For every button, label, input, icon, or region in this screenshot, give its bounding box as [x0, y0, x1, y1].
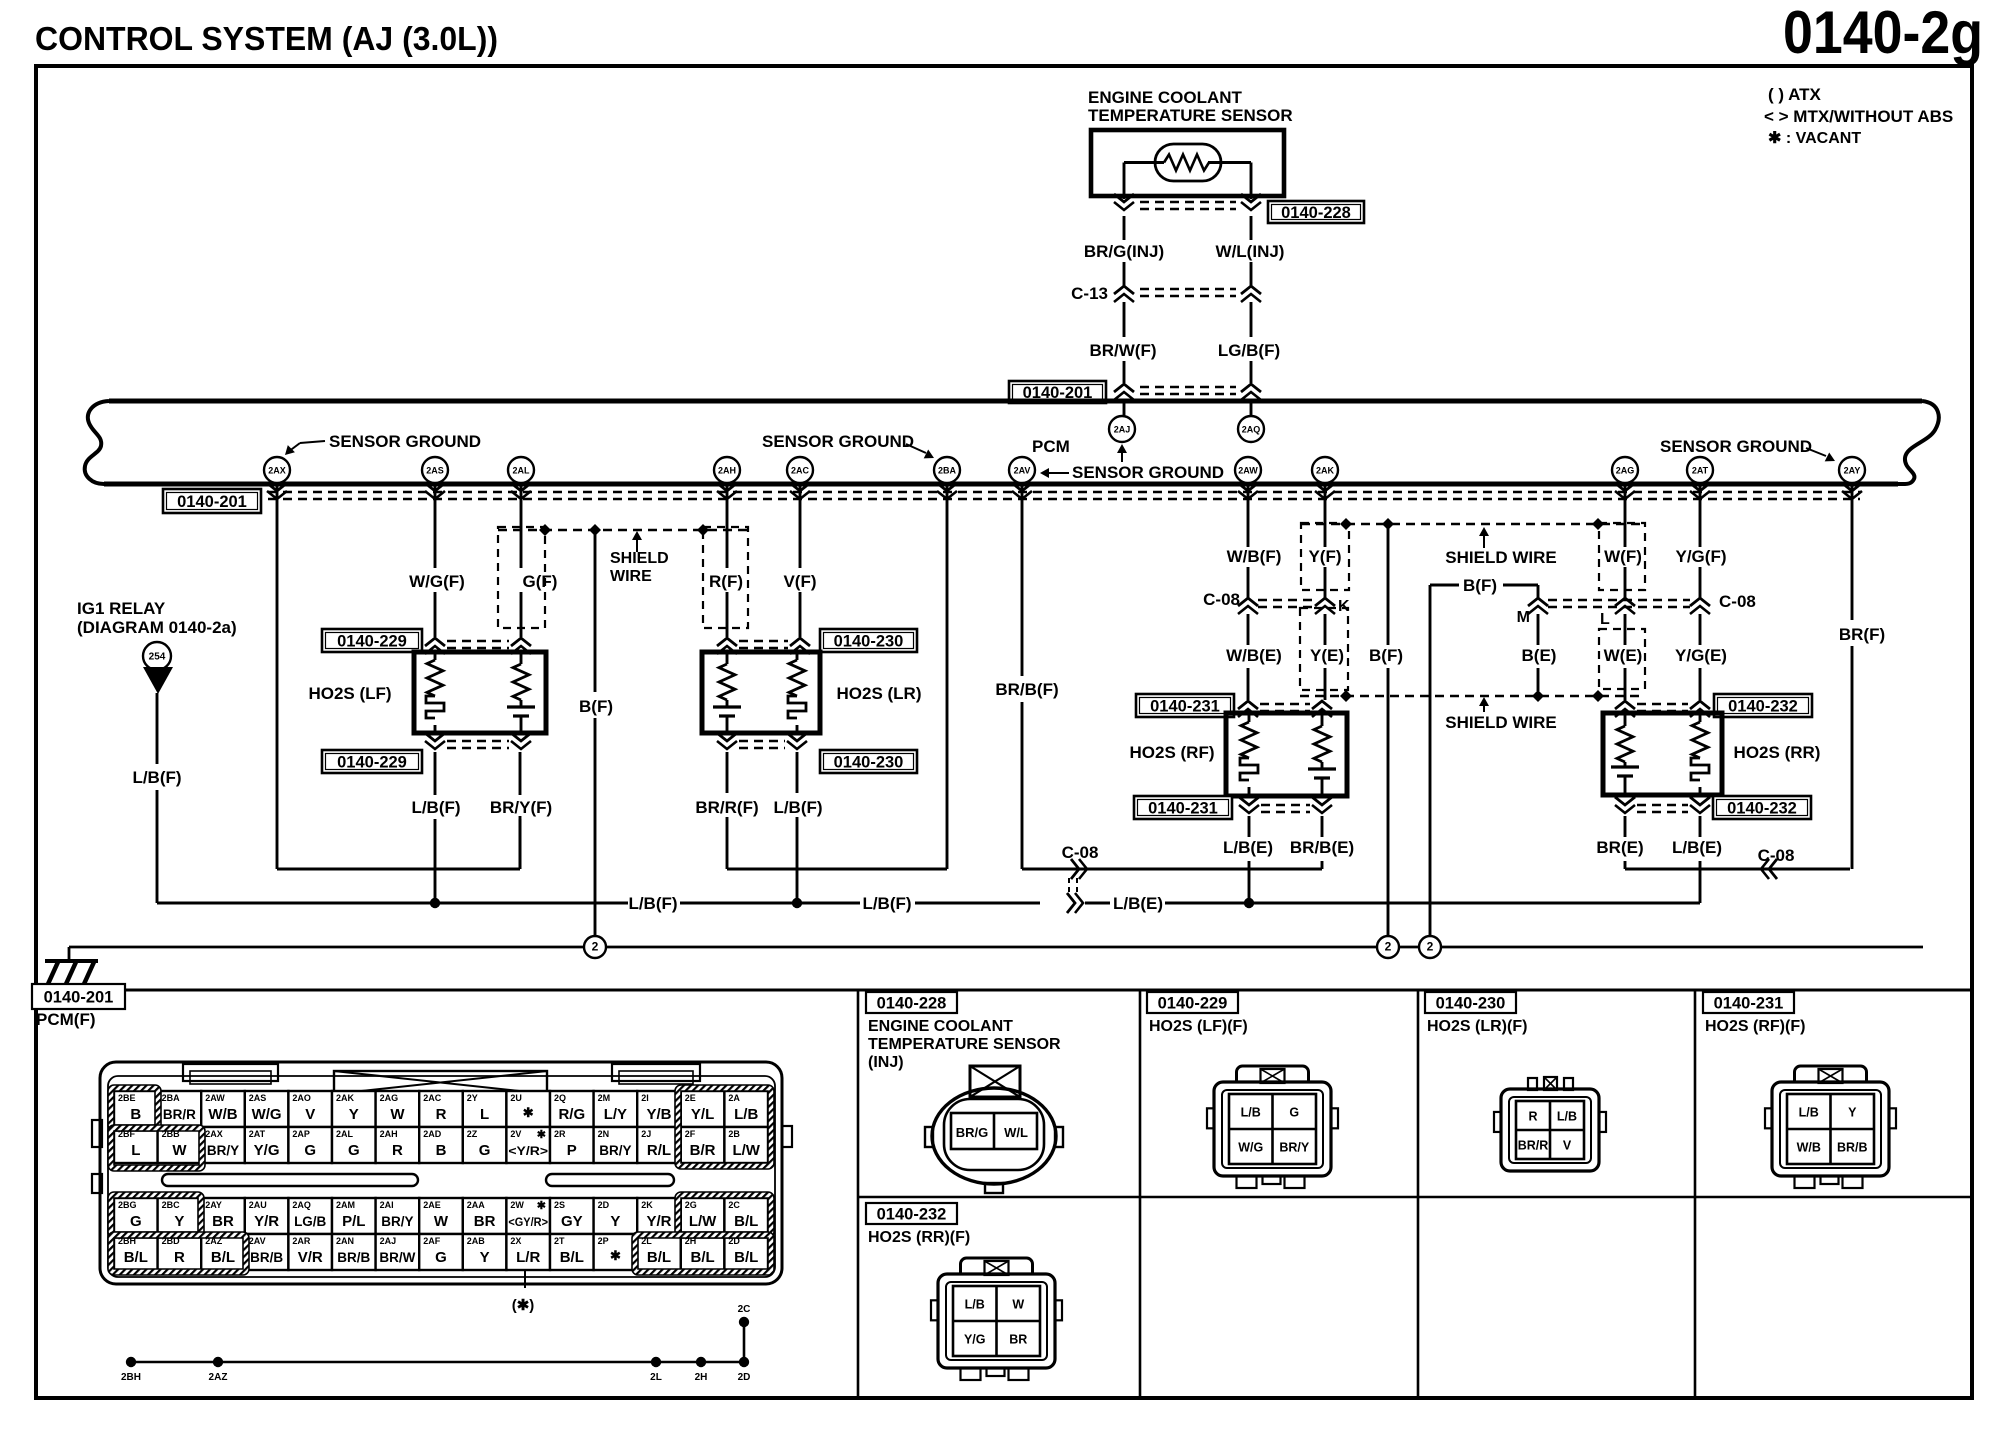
svg-text:C-08: C-08 — [1203, 590, 1240, 609]
connector chevron under pin 2AC — [790, 483, 810, 499]
svg-text:2BA: 2BA — [938, 466, 957, 476]
svg-text:2A: 2A — [728, 1093, 740, 1103]
junction dot L/B at RF — [1244, 898, 1254, 908]
svg-text:R: R — [436, 1106, 447, 1123]
svg-text:BR/Y: BR/Y — [381, 1214, 413, 1229]
svg-text:Y/G(E): Y/G(E) — [1675, 646, 1727, 665]
label box 0140-201 on bus — [163, 489, 261, 513]
PCM pin cell 2AR V/R — [288, 1234, 332, 1270]
wire label B(F) vertical — [1369, 646, 1403, 665]
svg-text:2Y: 2Y — [467, 1093, 478, 1103]
wire main L/B ground return line — [157, 902, 1700, 905]
svg-text:PCM: PCM — [1032, 437, 1070, 456]
svg-text:TEMPERATURE SENSOR: TEMPERATURE SENSOR — [1088, 106, 1293, 125]
svg-text:LG/B: LG/B — [294, 1214, 326, 1229]
wire B(F) left shield drain — [594, 530, 597, 936]
wire label G(F) — [523, 572, 558, 591]
wire R(F) from 2AH — [726, 484, 729, 637]
wire label W/B(E) — [1226, 646, 1282, 665]
wire BR/B horizontal to HO2S RF — [1022, 868, 1322, 871]
svg-text:SENSOR GROUND: SENSOR GROUND — [1660, 437, 1812, 456]
shield wire label left — [610, 531, 669, 585]
label box 0140-232 column — [866, 1203, 957, 1224]
svg-text:2L: 2L — [650, 1372, 662, 1383]
IG1 relay label — [77, 599, 237, 637]
svg-text:2T: 2T — [554, 1236, 565, 1246]
svg-text:✱: ✱ — [610, 1248, 621, 1263]
PCM connector hatched group 2BE — [108, 1085, 161, 1131]
connector chevron under pin 2BA — [937, 483, 957, 499]
svg-text:0140-230: 0140-230 — [834, 633, 904, 651]
svg-text:HO2S (RF)(F): HO2S (RF)(F) — [1705, 1018, 1805, 1035]
PCM pin cell 2J R/L — [637, 1127, 681, 1163]
svg-text:SENSOR GROUND: SENSOR GROUND — [762, 432, 914, 451]
svg-text:2AL: 2AL — [512, 466, 530, 476]
PCM connector hatched group 2G 2C — [675, 1192, 774, 1238]
label SENSOR GROUND right with arrow to 2AY — [1660, 437, 1835, 461]
svg-text:HO2S (RR): HO2S (RR) — [1734, 743, 1821, 762]
wire B(F) right shield drain 1 — [1387, 524, 1390, 936]
svg-text:✱: ✱ — [523, 1105, 534, 1120]
HO2S (LR) sensing element — [713, 654, 741, 731]
PCM pin cell 2BE B — [114, 1091, 158, 1127]
svg-text:L/W: L/W — [689, 1213, 717, 1230]
svg-text:2AC: 2AC — [423, 1093, 442, 1103]
PCM pin cell 2AG W — [376, 1091, 420, 1127]
svg-text:B/L: B/L — [647, 1249, 671, 1266]
jumper wire 2BH-2AZ-2L-2H-2D — [131, 1322, 744, 1362]
junction dot L/B at LF — [430, 898, 440, 908]
svg-text:2S: 2S — [554, 1200, 565, 1210]
svg-text:SHIELD: SHIELD — [610, 550, 669, 567]
svg-text:2BC: 2BC — [162, 1200, 181, 1210]
wire label W/G(F) — [409, 572, 465, 591]
svg-text:CONTROL SYSTEM (AJ (3.0L)): CONTROL SYSTEM (AJ (3.0L)) — [35, 20, 498, 57]
HO2S (RF)(F) connector view — [1765, 1066, 1896, 1188]
wire BR(F) from 2AY — [1851, 484, 1854, 869]
svg-text:B/L: B/L — [560, 1249, 584, 1266]
svg-text:W/B: W/B — [1797, 1141, 1821, 1155]
wire label W(F) — [1604, 547, 1642, 566]
HO2S (LF) heater element — [426, 654, 444, 731]
connector 0140-228 crossing — [1114, 194, 1261, 210]
shield wire label right bottom — [1445, 697, 1556, 732]
connector chevron under pin 2AG — [1615, 483, 1635, 499]
wire label R(F) — [709, 572, 743, 591]
label HO2S (RF) — [1130, 743, 1215, 762]
jumper node 2H — [695, 1357, 708, 1383]
svg-text:K: K — [1338, 598, 1350, 615]
HO2S (RR) sensor box — [1603, 713, 1722, 795]
label C-08 right — [1719, 592, 1756, 611]
svg-text:HO2S (LF)(F): HO2S (LF)(F) — [1149, 1018, 1248, 1035]
svg-text:Y/G: Y/G — [254, 1142, 280, 1159]
HO2S (RR) sensing element — [1611, 715, 1639, 793]
wire BR horizontal to 2AY — [1625, 868, 1850, 871]
svg-text:BR/W(F): BR/W(F) — [1089, 341, 1156, 360]
label box 0140-230 lower — [820, 750, 917, 773]
PCM pin cell 2BG G — [114, 1198, 158, 1234]
svg-text:2AW: 2AW — [205, 1093, 225, 1103]
wire U-connector 2AX to BR/Y — [277, 816, 520, 869]
svg-text:0140-230: 0140-230 — [834, 754, 904, 772]
svg-text:G: G — [304, 1142, 316, 1159]
svg-text:BR/G(INJ): BR/G(INJ) — [1084, 242, 1164, 261]
PCM pin cell 2BC Y — [158, 1198, 202, 1234]
svg-text:2C: 2C — [738, 1304, 751, 1315]
HO2S (LR) sensor box — [702, 652, 820, 733]
svg-text:L/B: L/B — [1799, 1106, 1819, 1120]
svg-text:B/L: B/L — [734, 1249, 758, 1266]
svg-text:2AJ: 2AJ — [380, 1236, 397, 1246]
svg-text:2AG: 2AG — [1616, 466, 1635, 476]
svg-text:2BA: 2BA — [162, 1093, 181, 1103]
label box 0140-230 upper — [820, 629, 917, 652]
svg-text:0140-229: 0140-229 — [1158, 995, 1228, 1013]
PCM pin cell 2BH B/L — [114, 1234, 158, 1270]
svg-text:Y/L: Y/L — [691, 1106, 714, 1123]
svg-text:0140-232: 0140-232 — [1727, 800, 1797, 818]
wire L/B(E) below HO2S RF — [1248, 816, 1251, 903]
svg-text:2H: 2H — [695, 1372, 708, 1383]
svg-text:2AV: 2AV — [1014, 466, 1031, 476]
label HO2S (RR)(F) — [868, 1229, 970, 1246]
label C-08 near RF — [1062, 843, 1099, 862]
svg-text:0140-232: 0140-232 — [1728, 698, 1798, 716]
svg-text:2AF: 2AF — [423, 1236, 441, 1246]
label C-13 — [1071, 284, 1108, 303]
PCM pin cell 2AO V — [288, 1091, 332, 1127]
ground symbol — [45, 961, 98, 984]
svg-text:SENSOR GROUND: SENSOR GROUND — [1072, 463, 1224, 482]
wire label L/B(F) main 2 — [862, 894, 911, 913]
svg-text:B/L: B/L — [211, 1249, 235, 1266]
wire label B(E) — [1522, 646, 1557, 665]
svg-text:0140-201: 0140-201 — [177, 493, 247, 511]
wire label Y(F) — [1308, 547, 1341, 566]
ECT sensor connector view — [925, 1066, 1063, 1193]
HO2S (RF) heater element — [1240, 715, 1258, 794]
svg-text:2E: 2E — [685, 1093, 696, 1103]
PCM pin cell 2U * — [506, 1091, 550, 1127]
PCM pin cell 2AL G — [332, 1127, 376, 1163]
PCM pin cell 2AD B — [419, 1127, 463, 1163]
label box 0140-229 upper — [322, 629, 422, 652]
svg-text:L/B(F): L/B(F) — [773, 798, 822, 817]
wire label BR/Y(F) under LF — [490, 798, 552, 817]
wire L/B(F) below HO2S LF — [434, 752, 437, 903]
svg-text:IG1 RELAY: IG1 RELAY — [77, 599, 166, 618]
PCM pin 2AW — [1235, 457, 1261, 483]
svg-text:ENGINE COOLANT: ENGINE COOLANT — [1088, 88, 1243, 107]
wire ECT internal horizontal — [1124, 161, 1251, 164]
PCM pin cell 2A L/B — [724, 1091, 768, 1127]
svg-text:2AZ: 2AZ — [209, 1372, 228, 1383]
svg-text:2AG: 2AG — [380, 1093, 399, 1103]
svg-text:L/B(F): L/B(F) — [411, 798, 460, 817]
svg-text:Y: Y — [480, 1249, 490, 1266]
PCM pin cell 2K Y/R — [637, 1198, 681, 1234]
connector C-08 chevron on BR — [1761, 859, 1777, 879]
svg-text:2N: 2N — [598, 1129, 610, 1139]
PCM pin cell 2BB W — [158, 1127, 202, 1163]
bottom section vertical dividers — [858, 990, 1695, 1398]
PCM pin cell 2AW W/B — [201, 1091, 245, 1127]
PCM pin cell 2V <Y/R> — [506, 1127, 550, 1163]
PCM connector hatched group 2BG 2BC — [108, 1192, 204, 1238]
svg-text:L/B(F): L/B(F) — [862, 894, 911, 913]
svg-text:BR/G: BR/G — [956, 1125, 989, 1140]
svg-text:L: L — [131, 1142, 140, 1159]
label SENSOR GROUND left with arrow to 2AX — [285, 432, 481, 455]
svg-text:B/L: B/L — [691, 1249, 715, 1266]
svg-text:2R: 2R — [554, 1129, 566, 1139]
svg-text:2AS: 2AS — [249, 1093, 267, 1103]
PCM pin cell 2R P — [550, 1127, 594, 1163]
IG1 relay node 254 — [143, 642, 171, 670]
PCM pin cell 2AX BR/Y — [201, 1127, 245, 1163]
wire W(E) segment — [1624, 614, 1627, 700]
svg-text:L: L — [480, 1106, 489, 1123]
label box 0140-231 upper — [1136, 694, 1234, 717]
PCM pin cell 2D Y — [594, 1198, 638, 1234]
wire Y(E) segment — [1324, 614, 1327, 700]
svg-text:BR/B: BR/B — [337, 1250, 370, 1265]
svg-text:0140-201: 0140-201 — [44, 989, 114, 1007]
label HO2S (LR) — [837, 684, 922, 703]
svg-text:C-08: C-08 — [1758, 846, 1795, 865]
wire BR/B(F) from 2AV — [1021, 484, 1024, 869]
svg-text:Y/G(F): Y/G(F) — [1676, 547, 1727, 566]
svg-text:2P: 2P — [598, 1236, 609, 1246]
engine coolant temperature sensor label — [1088, 88, 1293, 125]
svg-text:(DIAGRAM 0140-2a): (DIAGRAM 0140-2a) — [77, 618, 237, 637]
svg-text:BR/Y: BR/Y — [207, 1143, 239, 1158]
connector 0140-201 dashed row under bus — [268, 492, 1860, 499]
svg-text:R: R — [174, 1249, 185, 1266]
svg-text:2AH: 2AH — [718, 466, 736, 476]
svg-text:W/G(F): W/G(F) — [409, 572, 465, 591]
PCM connector hatched group 2E 2A 2F 2B — [675, 1085, 774, 1169]
svg-text:HO2S (RR)(F): HO2S (RR)(F) — [868, 1229, 970, 1246]
label (*) below connector — [512, 1271, 535, 1314]
PCM pin cell 2AN BR/B — [332, 1234, 376, 1270]
svg-text:R: R — [1528, 1110, 1537, 1124]
svg-text:2U: 2U — [510, 1093, 522, 1103]
svg-text:✱: ✱ — [537, 1200, 546, 1212]
svg-text:2AO: 2AO — [292, 1093, 311, 1103]
PCM pin cell 2H B/L — [681, 1234, 725, 1270]
svg-text:2BE: 2BE — [118, 1093, 136, 1103]
svg-text:GY: GY — [561, 1213, 583, 1230]
svg-text:2AX: 2AX — [205, 1129, 223, 1139]
wire label L/B(F) main 1 — [628, 894, 677, 913]
HO2S (RF) sensing element — [1308, 715, 1336, 794]
svg-text:2AR: 2AR — [292, 1236, 311, 1246]
wire label L/B(E) under RR — [1672, 838, 1722, 857]
wire label BR/W(F) — [1089, 341, 1156, 360]
connector chevron under pin 2AY — [1842, 483, 1862, 499]
label box 0140-229 lower — [322, 750, 422, 773]
connector chevron under pin 2AV — [1012, 483, 1032, 499]
label SENSOR GROUND middle with arrow to 2BA — [762, 432, 934, 458]
PCM bus left torn end — [85, 401, 109, 484]
connector chevron under pin 2AK — [1315, 483, 1335, 499]
svg-text:BR/Y: BR/Y — [1279, 1141, 1310, 1155]
label HO2S (LR)(F) — [1427, 1018, 1527, 1035]
PCM pin cell 2L B/L — [637, 1234, 681, 1270]
svg-text:ENGINE COOLANT: ENGINE COOLANT — [868, 1018, 1013, 1035]
svg-text:2BG: 2BG — [118, 1200, 137, 1210]
PCM pin cell 2AE W — [419, 1198, 463, 1234]
shield wire dashed box around G(F) — [498, 527, 545, 628]
svg-text:2AT: 2AT — [249, 1129, 266, 1139]
wire label W/L(INJ) — [1216, 242, 1285, 261]
label box 0140-232 upper — [1714, 694, 1812, 717]
svg-text:V/R: V/R — [298, 1249, 323, 1266]
label HO2S (RR) — [1734, 743, 1821, 762]
connector C-13 crossing — [1114, 286, 1261, 302]
PCM pin cell 2AM P/L — [332, 1198, 376, 1234]
PCM pin cell 2B L/W — [724, 1127, 768, 1163]
ground node 2 left — [584, 936, 606, 958]
svg-text:2W: 2W — [510, 1200, 524, 1210]
HO2S (LF) sensing element — [507, 654, 535, 731]
PCM connector shell — [100, 1062, 782, 1284]
connector C-08 crossing right — [1548, 598, 1710, 614]
wire B(E) — [1537, 614, 1540, 691]
PCM bus bottom line — [104, 482, 1898, 487]
wire BR/R(F) below HO2S LR — [726, 752, 729, 869]
svg-text:0140-230: 0140-230 — [1436, 995, 1506, 1013]
connector C-08 crossing on BR/B — [1067, 859, 1087, 913]
ground node 2 right — [1419, 936, 1441, 958]
junction dot L/B at LR — [792, 898, 802, 908]
wire B(F) jog with label — [1430, 585, 1538, 936]
PCM pin cell 2AY BR — [201, 1198, 245, 1234]
svg-text:L/B(F): L/B(F) — [628, 894, 677, 913]
wire W/B(F) from 2AW — [1247, 484, 1250, 598]
svg-text:TEMPERATURE SENSOR: TEMPERATURE SENSOR — [868, 1036, 1061, 1053]
svg-text:2Q: 2Q — [554, 1093, 566, 1103]
svg-text:Y/R: Y/R — [254, 1213, 279, 1230]
label box 0140-231 column — [1703, 992, 1794, 1013]
svg-text:L/B: L/B — [1557, 1110, 1577, 1124]
PCM pin cell 2AK Y — [332, 1091, 376, 1127]
svg-text:PCM(F): PCM(F) — [36, 1010, 95, 1029]
svg-text:2AM: 2AM — [336, 1200, 355, 1210]
svg-text:B/L: B/L — [124, 1249, 148, 1266]
connector 0140-201 crossing above PCM — [1114, 384, 1261, 400]
svg-text:BR/W: BR/W — [379, 1250, 415, 1265]
wire label BR/R(F) under LR — [695, 798, 758, 817]
PCM connector hatched group 2BH 2BD 2AZ — [108, 1232, 249, 1275]
svg-text:0140-232: 0140-232 — [877, 1206, 947, 1224]
label ENGINE COOLANT TEMPERATURE SENSOR (INJ) — [868, 1018, 1061, 1071]
svg-text:HO2S (RF): HO2S (RF) — [1130, 743, 1215, 762]
svg-text:2: 2 — [1427, 940, 1434, 954]
wire label Y(E) — [1310, 646, 1344, 665]
svg-text:B(F): B(F) — [579, 697, 613, 716]
svg-text:L/B(E): L/B(E) — [1113, 894, 1163, 913]
title CONTROL SYSTEM (AJ (3.0L)) — [35, 20, 498, 57]
svg-text:L/B(E): L/B(E) — [1223, 838, 1273, 857]
HO2S (RF) sensor box — [1226, 713, 1347, 796]
wire Y/G(E) segment — [1699, 614, 1702, 700]
PCM pin cell 2BA BR/R — [158, 1091, 202, 1127]
connector 0140-230 upper crossing — [717, 638, 810, 654]
svg-text:SHIELD WIRE: SHIELD WIRE — [1445, 548, 1556, 567]
label HO2S (LF)(F) — [1149, 1018, 1248, 1035]
wire label V(F) — [783, 572, 816, 591]
svg-text:G: G — [348, 1142, 360, 1159]
svg-text:BR/B(F): BR/B(F) — [995, 680, 1058, 699]
HO2S (RR)(F) connector view — [931, 1258, 1062, 1380]
PCM pin cell 2AP G — [288, 1127, 332, 1163]
PCM pin cell 2C B/L — [724, 1198, 768, 1234]
svg-text:V: V — [305, 1106, 315, 1123]
svg-text:L: L — [1600, 611, 1610, 628]
PCM pin cell 2W <GY/R> — [506, 1198, 550, 1234]
svg-text:L/B(F): L/B(F) — [132, 768, 181, 787]
label box 0140-228 column — [866, 992, 957, 1013]
jumper node 2C — [738, 1304, 751, 1327]
svg-text:2AL: 2AL — [336, 1129, 354, 1139]
HO2S (LF)(F) connector view — [1207, 1066, 1338, 1188]
engine coolant temperature sensor box — [1091, 130, 1284, 196]
PCM bus top line — [109, 399, 1922, 404]
connector chevron under pin 2AX — [267, 483, 287, 499]
svg-text:B: B — [130, 1106, 141, 1123]
connector chevron under pin 2AH — [717, 483, 737, 499]
PCM pin cell 2I Y/B — [637, 1091, 681, 1127]
svg-text:SENSOR GROUND: SENSOR GROUND — [329, 432, 481, 451]
connector 0140-232 upper crossing — [1615, 701, 1710, 717]
wire L/B(E) below HO2S RR — [1699, 816, 1702, 903]
PCM pin cell 2AJ BR/W — [376, 1234, 420, 1270]
svg-text:HO2S (LR): HO2S (LR) — [837, 684, 922, 703]
wire W/L from ECT pin 2 down — [1250, 163, 1253, 417]
svg-text:Y: Y — [1848, 1106, 1857, 1120]
svg-text:C-13: C-13 — [1071, 284, 1108, 303]
svg-text:BR(F): BR(F) — [1839, 625, 1885, 644]
svg-text:Y: Y — [349, 1106, 359, 1123]
PCM pin cell 2Z G — [463, 1127, 507, 1163]
svg-text:0140-228: 0140-228 — [1281, 204, 1351, 222]
svg-text:BR/Y: BR/Y — [599, 1143, 631, 1158]
svg-text:C-08: C-08 — [1062, 843, 1099, 862]
svg-text:Y(E): Y(E) — [1310, 646, 1344, 665]
PCM pin 2AC — [787, 457, 813, 483]
svg-text:Y/R: Y/R — [646, 1213, 671, 1230]
wire BR/Y(F) below HO2S LF — [519, 752, 522, 869]
wire label L/B(F) under LR — [773, 798, 822, 817]
svg-text:W/B(F): W/B(F) — [1227, 547, 1282, 566]
svg-text:( ) ATX: ( ) ATX — [1768, 85, 1822, 104]
wire label B(F) left — [579, 697, 613, 716]
svg-text:G: G — [479, 1142, 491, 1159]
wire label BR(E) under RR — [1596, 838, 1643, 857]
svg-text:2I: 2I — [641, 1093, 649, 1103]
svg-text:0140-229: 0140-229 — [337, 633, 407, 651]
PCM connector keyway with cross — [334, 1071, 547, 1094]
svg-text:BR: BR — [1009, 1333, 1027, 1347]
PCM pin cell 2X L/R — [506, 1234, 550, 1270]
svg-text:2V: 2V — [510, 1129, 521, 1139]
PCM pin cell 2T B/L — [550, 1234, 594, 1270]
svg-text:2BH: 2BH — [121, 1372, 141, 1383]
PCM pin cell 2M L/Y — [594, 1091, 638, 1127]
